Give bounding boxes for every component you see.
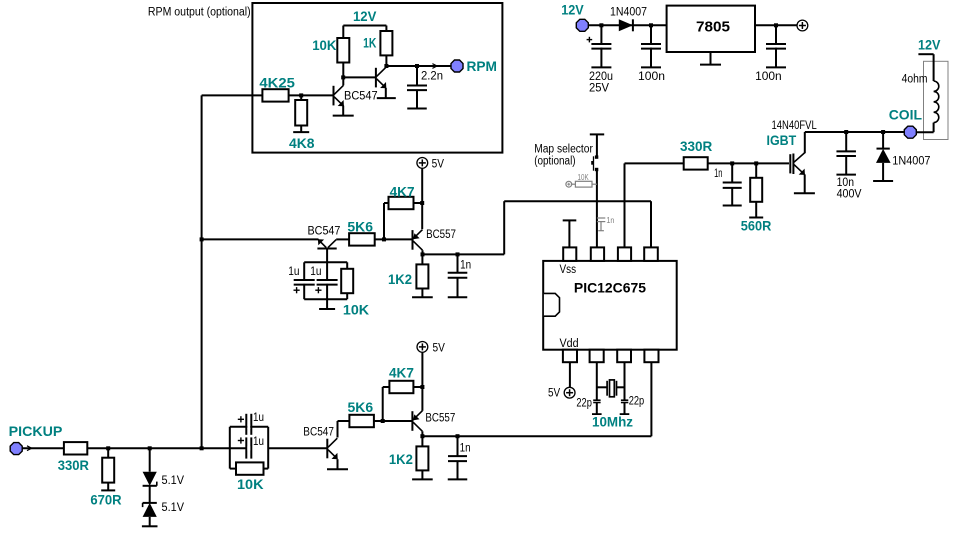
svg-text:1n: 1n <box>606 216 614 225</box>
svg-text:(optional): (optional) <box>534 156 576 168</box>
svg-text:1K2: 1K2 <box>388 271 412 287</box>
svg-text:5K6: 5K6 <box>348 399 374 415</box>
svg-text:1K2: 1K2 <box>389 451 413 467</box>
svg-text:RPM output (optional): RPM output (optional) <box>148 7 251 19</box>
svg-text:4ohm: 4ohm <box>902 73 928 85</box>
svg-text:10Mhz: 10Mhz <box>592 413 633 429</box>
svg-text:1u: 1u <box>310 266 321 278</box>
svg-text:Vdd: Vdd <box>560 338 579 350</box>
svg-text:14N40FVL: 14N40FVL <box>772 120 818 132</box>
svg-text:RPM: RPM <box>467 58 498 74</box>
svg-text:5V: 5V <box>548 385 560 399</box>
svg-text:22p: 22p <box>576 398 592 410</box>
svg-text:4K8: 4K8 <box>289 135 315 151</box>
svg-text:BC557: BC557 <box>425 413 455 425</box>
svg-text:10K: 10K <box>312 37 336 53</box>
svg-text:4K7: 4K7 <box>389 364 414 380</box>
svg-text:7805: 7805 <box>696 18 730 35</box>
svg-text:12V: 12V <box>561 2 584 18</box>
svg-text:560R: 560R <box>741 217 772 233</box>
svg-text:1n: 1n <box>460 259 471 271</box>
svg-text:670R: 670R <box>90 492 121 508</box>
svg-text:BC557: BC557 <box>426 229 456 241</box>
svg-text:2.2n: 2.2n <box>421 71 443 83</box>
svg-text:Map selector: Map selector <box>534 144 593 156</box>
svg-text:1n: 1n <box>460 443 471 455</box>
svg-text:12V: 12V <box>918 37 941 53</box>
svg-text:1u: 1u <box>253 412 264 424</box>
svg-text:BC547: BC547 <box>344 91 378 103</box>
svg-text:5.1V: 5.1V <box>162 475 185 487</box>
svg-text:100n: 100n <box>755 71 782 83</box>
svg-text:220u: 220u <box>589 71 613 83</box>
svg-text:PIC12C675: PIC12C675 <box>574 279 646 295</box>
svg-text:PICKUP: PICKUP <box>9 423 63 439</box>
svg-text:330R: 330R <box>680 138 712 154</box>
svg-text:1u: 1u <box>288 266 299 278</box>
svg-text:5.1V: 5.1V <box>162 502 185 514</box>
svg-text:1N4007: 1N4007 <box>892 156 930 168</box>
svg-text:5V: 5V <box>432 156 444 170</box>
svg-text:10K: 10K <box>343 302 369 318</box>
svg-text:4K7: 4K7 <box>390 183 415 199</box>
svg-text:4K25: 4K25 <box>259 75 295 91</box>
svg-text:5V: 5V <box>433 341 445 355</box>
svg-text:22p: 22p <box>629 396 645 408</box>
svg-text:COIL: COIL <box>889 107 923 123</box>
svg-text:10n: 10n <box>837 177 854 189</box>
svg-text:12V: 12V <box>353 8 377 24</box>
svg-text:25V: 25V <box>589 82 609 94</box>
svg-text:400V: 400V <box>837 188 862 200</box>
svg-text:BC547: BC547 <box>303 427 334 439</box>
svg-text:10K: 10K <box>578 173 590 182</box>
svg-text:1u: 1u <box>253 436 264 448</box>
svg-text:IGBT: IGBT <box>767 132 797 148</box>
svg-text:Vss: Vss <box>560 264 577 276</box>
svg-text:1N4007: 1N4007 <box>610 7 647 19</box>
svg-text:100n: 100n <box>638 71 665 83</box>
svg-text:1K: 1K <box>363 35 376 51</box>
svg-text:330R: 330R <box>58 457 89 473</box>
svg-text:10K: 10K <box>237 476 264 492</box>
svg-text:BC547: BC547 <box>308 226 341 238</box>
svg-text:1n: 1n <box>714 168 722 180</box>
svg-text:5K6: 5K6 <box>347 218 373 234</box>
